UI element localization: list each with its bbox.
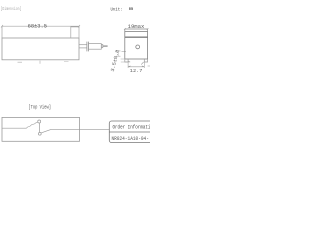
switch bimetal vertical: [38, 123, 40, 132]
end view bottom-left extension: [121, 58, 125, 60]
dimension 12.7 right extension: [143, 62, 145, 68]
body top-right terminal block: [71, 27, 79, 38]
front view bottom tab right: [64, 61, 69, 63]
dimension 68±3.5 end ticks: [1, 25, 80, 27]
dimension 68±3.5 right extension: [78, 26, 80, 27]
svg-text:68±3.5: 68±3.5: [28, 23, 47, 29]
end view lid seam: [125, 36, 148, 38]
terminal pin collar: [101, 45, 103, 48]
foot bottom leader line: [121, 60, 130, 63]
dimension tick upper left of end view: [116, 50, 126, 53]
terminal pin: [103, 45, 108, 47]
front view bottom tab left: [18, 61, 23, 63]
end view box: [125, 32, 148, 59]
front view body: [2, 38, 79, 60]
top view right lead wire: [51, 128, 109, 130]
order information table frame: [109, 121, 153, 143]
end view right foot: [144, 59, 147, 62]
front view bottom center tick: [39, 61, 41, 64]
dimension 12.7 right corner extension: [148, 65, 150, 67]
switch lower contact: [38, 132, 41, 135]
top view left lead wire: [2, 127, 27, 129]
terminal strip lower line: [79, 47, 87, 49]
order information table divider: [109, 131, 153, 133]
dimension 19max dim line: [125, 28, 148, 30]
dimension tick lower: [116, 55, 121, 57]
dimension 19max extensions: [125, 29, 148, 32]
end view circle hole: [136, 45, 140, 49]
svg-text:[Dimension]: [Dimension]: [1, 6, 22, 12]
svg-text:NR824-1A10-04-: NR824-1A10-04-: [112, 136, 149, 142]
svg-text:Order Information: Order Information: [113, 124, 151, 130]
svg-text:mm: mm: [129, 6, 133, 11]
switch blade diagonal: [41, 129, 51, 133]
svg-text:Unit:: Unit:: [111, 6, 123, 12]
switch upper contact: [38, 120, 41, 123]
dimension 12.7 dim line: [128, 66, 144, 68]
svg-text:[Top View]: [Top View]: [28, 105, 51, 111]
switch heater squiggle lead: [27, 122, 38, 128]
dimension 12.7 arrows: [128, 62, 144, 67]
dimension 12.7 left extension: [127, 62, 129, 68]
terminal cylinder: [88, 44, 101, 50]
svg-text:12.7: 12.7: [130, 68, 143, 74]
terminal strip upper line: [79, 44, 87, 46]
end view left foot: [125, 59, 128, 62]
dimension 68±3.5 left extension: [1, 26, 3, 38]
dimension 19max end ticks: [124, 28, 148, 30]
dimension connector vertical: [117, 51, 119, 56]
top view body outline: [2, 117, 80, 141]
dimension 68±3.5 dimension line: [2, 25, 79, 27]
terminal flange: [87, 42, 89, 52]
